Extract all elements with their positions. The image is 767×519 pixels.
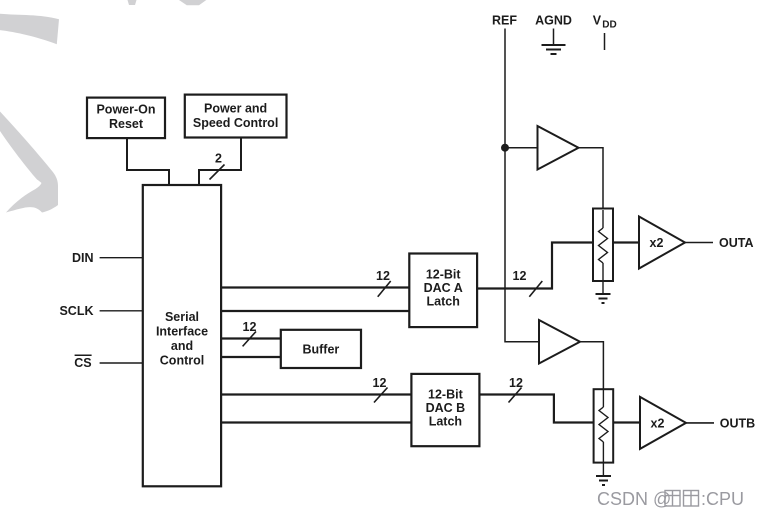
label: REF pin [492,14,517,28]
ground: below resistor string A [596,294,611,303]
wire: DIN input [100,257,143,259]
wire: serial interface to DAC A latch (upper, 12-bit bus) [221,286,409,288]
svg-text:12: 12 [243,320,257,334]
svg-text:CS: CS [74,356,91,370]
wire: x2 amp B to OUTB [686,422,714,424]
svg-text:OUTB: OUTB [720,416,755,430]
wire: x2 amp A to OUTA [685,242,713,244]
wire: VDD stub [604,33,606,50]
svg-text:Latch: Latch [427,295,460,309]
svg-text:Buffer: Buffer [302,343,339,357]
label: bus width 12 (DAC A output) [513,269,527,283]
wire: CS input [100,362,143,364]
wire: serial interface to DAC A latch (lower) [221,310,409,312]
label: VDD pin [593,14,617,31]
bus slash on DAC B output bus [509,388,522,403]
watermark fragment 1 top edge [128,0,137,5]
wire: Power-On Reset to Serial Interface [127,138,169,185]
svg-text:SCLK: SCLK [59,304,93,318]
label: bus width 12 (DAC A input) [376,269,390,283]
op-amp: x2 output amp B [640,397,686,449]
wire: Power and Speed Control to Serial Interface (2-bit bus) [199,138,241,186]
block U1: Power-On Reset [87,98,165,139]
label: DIN pin [72,251,94,265]
svg-text:x2: x2 [650,236,664,250]
wire: resistor string B tap to x2 amp B [613,421,640,423]
label: bus width 12 (DAC B input) [373,376,387,390]
wire: serial interface to Buffer (upper, 12-bit bus) [221,337,281,339]
resistor R2: DAC B resistor string [594,389,614,475]
svg-text:12-Bit: 12-Bit [428,388,464,402]
label: AGND pin [535,14,572,28]
label: SCLK pin [59,304,93,318]
svg-text:and: and [171,339,193,353]
wire: REF to buffer A input [505,147,538,149]
svg-text:DIN: DIN [72,251,94,265]
svg-text:Reset: Reset [109,117,144,131]
block U5: 12-Bit DAC A Latch [409,254,477,328]
ground: below resistor string B [596,476,611,485]
label: OUTB pin [720,416,755,430]
label: CS-bar pin [74,355,91,370]
block U4: Buffer [281,330,361,368]
svg-text:12-Bit: 12-Bit [426,268,462,282]
label: bus width 12 (DAC B output) [509,376,523,390]
block U2: Power and Speed Control [185,95,287,138]
block U3: Serial Interface and Control [143,185,221,486]
op-amp: x2 output amp A [639,217,685,269]
ground: AGND symbol [542,29,566,55]
node: REF junction dot at buffer A input [501,144,509,152]
bus slash on 2-bit control bus [210,165,225,180]
wire: DAC A latch to resistor string A (12-bit bus) [477,243,593,289]
svg-text:2: 2 [215,152,222,166]
wire: resistor string A tap to x2 amp A [613,241,639,243]
label: OUTA pin [719,236,754,250]
wire: serial interface to Buffer (lower) [221,356,281,358]
bus slash on DAC A input bus [378,281,391,297]
svg-text:DAC B: DAC B [426,401,466,415]
svg-text:Power and: Power and [204,102,267,116]
svg-text:CSDN @: CSDN @ [597,489,671,509]
resistor R1: DAC A resistor string [593,209,613,294]
svg-text:OUTA: OUTA [719,236,754,250]
svg-text:REF: REF [492,14,517,28]
svg-text:Serial: Serial [165,310,199,324]
svg-text:DAC A: DAC A [424,281,463,295]
svg-text:Latch: Latch [429,415,462,429]
svg-text:Speed Control: Speed Control [193,116,278,130]
wire: serial interface to DAC B latch (lower) [221,421,411,423]
wire: buffer B output to resistor string B [580,342,603,390]
label: bus width 12 (buffer) [243,320,257,334]
svg-text:12: 12 [376,269,390,283]
svg-text:12: 12 [513,269,527,283]
svg-text::CPU: :CPU [701,489,744,509]
wire: DAC B latch to resistor string B (12-bit bus) [479,395,593,423]
svg-text:AGND: AGND [535,14,572,28]
wire: REF vertical rail [505,29,539,342]
bus slash on buffer bus [243,332,256,347]
svg-text:Control: Control [160,354,204,368]
label: bus width 2 [215,152,222,166]
svg-text:Power-On: Power-On [96,103,155,117]
svg-text:V: V [593,14,602,28]
bus slash on DAC B input bus [374,388,388,403]
svg-text:DD: DD [602,20,616,31]
watermark text: CSDN @傻童:CPU [597,489,744,509]
wire: buffer A output to resistor string A [579,148,604,209]
watermark fragment 2 top edge [179,0,206,5]
watermark swoosh top-left [0,14,59,44]
op-amp: reference buffer B [539,320,580,364]
wire: serial interface to DAC B latch (upper, 12-bit bus) [221,393,411,395]
block U6: 12-Bit DAC B Latch [411,374,479,446]
op-amp: reference buffer A [538,126,579,170]
wire: SCLK input [100,310,143,312]
watermark chevron left [0,112,58,213]
svg-text:12: 12 [509,376,523,390]
svg-text:x2: x2 [651,416,665,430]
svg-text:Interface: Interface [156,325,208,339]
bus slash on DAC A output bus [529,281,542,297]
svg-text:12: 12 [373,376,387,390]
